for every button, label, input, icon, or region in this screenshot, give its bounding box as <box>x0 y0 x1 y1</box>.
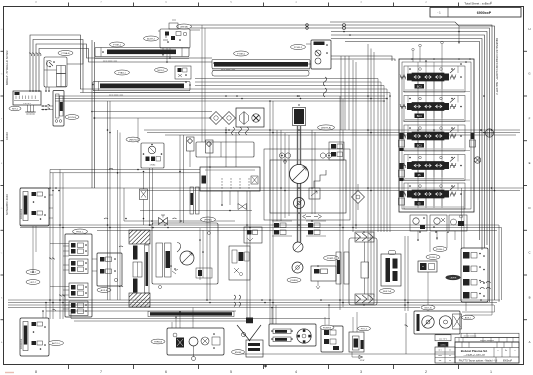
transmission box <box>152 223 218 284</box>
svg-text:ACBT-2: ACBT-2 <box>147 38 155 41</box>
svg-text:BC3: BC3 <box>417 115 422 118</box>
svg-text:PTGE-0: PTGE-0 <box>237 54 246 56</box>
left coil breaks <box>234 295 241 307</box>
label MSTR-A <box>318 125 335 130</box>
trans right details <box>196 228 212 280</box>
svg-text:7: 7 <box>100 370 102 374</box>
run y130 <box>144 130 520 135</box>
valve MOS-1 <box>175 66 191 79</box>
drive shaft <box>298 126 301 242</box>
label MULT-A <box>380 289 395 294</box>
bank port verticals <box>418 62 442 208</box>
label MSTA <box>177 24 192 29</box>
fan cooler box <box>236 108 264 127</box>
fan assembly outer <box>349 238 377 305</box>
registration mark <box>5 372 14 373</box>
trans pump <box>180 251 194 265</box>
bank relief R1 <box>470 133 481 163</box>
solenoid cluster R <box>306 221 326 236</box>
svg-text:AUX-L: AUX-L <box>465 317 472 320</box>
svg-text:xxx xxx xxxxxxxx: xxx xxx xxxxxxxx <box>480 340 494 342</box>
valve section 2 <box>400 96 465 122</box>
label AUX-L <box>462 315 475 320</box>
aux valve module <box>97 253 122 286</box>
svg-text:xxx xxx xxxxxxx: xxx xxx xxxxxxx <box>464 336 477 338</box>
label TILT-T <box>26 270 40 275</box>
svg-text:xx: xx <box>449 360 451 362</box>
module left PUSH <box>418 261 437 272</box>
engine mount cluster <box>237 325 263 357</box>
svg-text:xxx : 57 L: xxx : 57 L <box>439 338 447 340</box>
wire x93 <box>92 40 95 188</box>
axle bars <box>133 246 142 293</box>
svg-text:SCHEMATIC XXXX: SCHEMATIC XXXX <box>6 194 9 215</box>
valve bank outer <box>399 59 474 212</box>
bank section wires <box>403 92 470 181</box>
ACBT top box <box>169 20 178 29</box>
steering feed wires <box>32 226 55 318</box>
vert x207 <box>207 157 210 300</box>
svg-text:x: x <box>515 350 516 352</box>
wire x138 <box>137 118 139 143</box>
label LEVER <box>446 275 461 280</box>
wire <box>46 87 49 91</box>
pedal valve 3 <box>69 283 88 298</box>
ball valve 2 <box>124 188 235 225</box>
label SOLN-B <box>65 115 79 120</box>
zigzag pipe <box>314 170 326 188</box>
svg-text:LIFT-T: LIFT-T <box>30 282 37 284</box>
svg-text:6900xxP: 6900xxP <box>477 11 492 15</box>
thermo block <box>246 318 253 324</box>
svg-text:Total Sheet : xxBxxP: Total Sheet : xxBxxP <box>464 2 492 6</box>
drain arrow note <box>352 313 408 362</box>
label PUSH-1 <box>433 247 447 252</box>
svg-text:PUSH-2: PUSH-2 <box>429 257 438 259</box>
steering unit upper <box>20 188 49 226</box>
label LIFT-T <box>26 280 40 285</box>
label MOT-B <box>421 305 435 310</box>
wire breaks <box>49 258 65 297</box>
title revision strips <box>455 333 519 342</box>
label PRND <box>201 217 216 222</box>
valve section 1 <box>400 66 465 92</box>
left margin vertical note <box>6 50 9 85</box>
svg-text:SOLN-B: SOLN-B <box>68 117 77 119</box>
wire bundle top-left nest <box>30 35 212 93</box>
svg-text:H: H <box>528 27 530 31</box>
label THRS-B <box>151 339 165 344</box>
fan center <box>361 242 369 294</box>
cooler coils <box>232 127 249 135</box>
hose bar PTAS-1 <box>93 82 190 93</box>
run y300 <box>8 300 500 308</box>
hose coupler circles <box>306 24 346 30</box>
bank relief L3 <box>399 191 405 205</box>
inline valve box <box>140 173 148 225</box>
svg-text:x·x: x·x <box>449 350 451 352</box>
label PCHG-2 <box>291 45 306 50</box>
svg-text:(REVS): (REVS) <box>129 140 137 142</box>
svg-text:xxxx: xxxx <box>438 355 442 357</box>
pump 4 <box>292 262 303 273</box>
svg-text:4: 4 <box>295 370 297 374</box>
dark hose bottom <box>148 311 234 316</box>
vert x270 <box>270 101 273 324</box>
svg-text:PCHG-2: PCHG-2 <box>294 47 303 49</box>
relay module column <box>461 248 488 302</box>
svg-text:Bobcat Plasma SA: Bobcat Plasma SA <box>461 349 488 353</box>
svg-text:2: 2 <box>425 370 427 374</box>
vert x341 group <box>341 56 349 130</box>
solenoid cluster L <box>272 221 292 236</box>
vert x277-289 <box>277 130 289 221</box>
svg-text:(MSTA): (MSTA) <box>180 26 188 29</box>
svg-text:PTO-1: PTO-1 <box>361 329 368 331</box>
cluster feed wires <box>271 304 357 332</box>
svg-text:BC3: BC3 <box>417 145 422 148</box>
vert x353 <box>353 60 356 232</box>
svg-text:(CHRG): (CHRG) <box>290 280 298 282</box>
hose bar PTGE-1 <box>95 48 189 59</box>
run y311-316 <box>46 309 330 321</box>
svg-text:PUSH-1: PUSH-1 <box>436 249 445 251</box>
valve section 5 <box>400 183 465 209</box>
svg-text:~~Chd5~2~XXX~Of: ~~Chd5~2~XXX~Of <box>463 354 485 357</box>
bank bottom box2 <box>430 215 447 231</box>
vert x247 <box>247 191 250 322</box>
reservoir box <box>196 142 254 157</box>
run y354 <box>236 353 455 355</box>
label PTGE-0 <box>234 51 249 56</box>
vert x202 <box>202 25 205 142</box>
nest stub <box>458 26 460 44</box>
label KEY <box>9 106 21 111</box>
trans bits <box>159 265 179 288</box>
coil break right <box>323 77 327 97</box>
bank top stubs <box>412 41 444 62</box>
charge pump PCHG <box>306 40 331 69</box>
vert bundle bank-left <box>378 79 390 233</box>
svg-text:Dx: Dx <box>505 350 507 352</box>
motor valve REVS <box>141 143 164 168</box>
radiator chevron top <box>355 232 374 242</box>
vert x340 <box>340 96 343 310</box>
svg-text:F: F <box>529 116 531 120</box>
accumulator pills <box>336 252 349 284</box>
svg-text:B: B <box>529 295 531 299</box>
pump 2 <box>294 198 305 209</box>
run y96 <box>55 96 387 101</box>
svg-text:MOS-1: MOS-1 <box>158 70 166 72</box>
foot valve cluster <box>321 326 343 352</box>
svg-text:6900xxP - HYDRAULIC SCHEM: 6900xxP - HYDRAULIC SCHEM <box>6 50 9 85</box>
aux valve box <box>311 266 336 289</box>
svg-text:ENGN: ENGN <box>235 352 242 354</box>
run y78-92 <box>80 79 390 93</box>
svg-text:G: G <box>528 72 530 76</box>
label CHRG <box>287 278 301 283</box>
svg-text:MULT-A: MULT-A <box>383 290 391 293</box>
long verticals left <box>50 170 63 320</box>
gauge pair left <box>279 153 290 164</box>
small box xv <box>251 176 258 184</box>
circle cross right <box>485 129 493 137</box>
svg-text:XXXXXXXX: XXXXXXXX <box>21 338 23 349</box>
pump 3 <box>293 242 303 252</box>
ground symbols <box>25 105 35 114</box>
hydraulic tank <box>200 167 260 191</box>
shuttle arrows <box>303 215 322 219</box>
wire nest top A <box>190 22 495 305</box>
svg-text:6900xxP: 6900xxP <box>503 359 513 362</box>
wire PCHG to bank top <box>331 56 395 61</box>
hose note <box>221 69 235 71</box>
svg-text:xxXxx: xxXxx <box>440 345 445 347</box>
right coil breaks <box>480 281 491 289</box>
dark code box <box>438 342 449 347</box>
svg-text:xx·x: xx·x <box>438 350 441 352</box>
check diamond pump <box>352 184 365 210</box>
svg-text:REMOVE XX COVER FOR CLARITY -: REMOVE XX COVER FOR CLARITY - SEE SHT 2 <box>495 38 498 95</box>
label REVS <box>126 137 140 142</box>
transmission pills <box>156 243 171 277</box>
module M2 <box>229 246 250 280</box>
cooler feed wires <box>93 112 225 119</box>
label PUSH-B <box>320 325 334 330</box>
bank bottom box1 <box>410 215 427 231</box>
svg-text:XXXXXXXX: XXXXXXXX <box>21 208 23 219</box>
vert x405 <box>405 236 408 311</box>
throttle cluster <box>167 328 224 361</box>
breather 1 <box>187 137 195 167</box>
svg-text:AUX-B: AUX-B <box>101 289 108 292</box>
drawing number box <box>430 8 521 18</box>
vert x312 <box>312 130 315 214</box>
left margin vertical note 3 <box>6 194 9 215</box>
run y188 <box>20 188 523 191</box>
relay feeds <box>462 188 465 248</box>
tank pills <box>190 187 199 214</box>
title block main <box>455 342 519 363</box>
pto valve <box>349 332 364 352</box>
label PTAS-1 <box>115 70 130 75</box>
gauge pair right <box>320 153 331 158</box>
wire y169 <box>50 168 200 173</box>
svg-text:M: M <box>298 104 300 107</box>
wire x83 <box>67 44 83 64</box>
svg-text:MOT-B: MOT-B <box>425 308 432 310</box>
svg-text:8: 8 <box>35 370 37 374</box>
svg-text:PUSH-B: PUSH-B <box>323 328 332 330</box>
drive motor pair <box>414 311 460 334</box>
svg-text:PEDL-L: PEDL-L <box>76 232 84 234</box>
wire break arcs <box>29 53 41 56</box>
radiator chevron bottom <box>355 294 374 304</box>
wheel top <box>115 230 167 244</box>
svg-text:xTOBx: xTOBx <box>150 165 156 167</box>
svg-text:5: 5 <box>230 370 232 374</box>
svg-text:BC3: BC3 <box>417 86 422 89</box>
breather 2 <box>206 140 214 153</box>
svg-text:xx: xx <box>449 355 451 357</box>
joystick cluster <box>269 324 316 346</box>
label MOS-1 <box>155 68 168 73</box>
pump housing <box>264 149 350 220</box>
vert x226 <box>226 127 236 167</box>
label PEDL-L <box>73 229 88 234</box>
label ENGN <box>232 350 245 355</box>
axle housing <box>145 245 150 293</box>
svg-text:xx: xx <box>422 266 424 268</box>
svg-text:C: C <box>528 251 530 255</box>
label PTBA-B <box>58 51 73 56</box>
svg-text:A: A <box>529 340 531 344</box>
wire nest top B <box>331 32 487 251</box>
tank drain valve <box>140 191 252 211</box>
hose note <box>103 61 117 63</box>
svg-text:KEY-1: KEY-1 <box>12 109 19 111</box>
trans squiggle <box>177 243 181 253</box>
svg-text:D: D <box>528 206 530 210</box>
svg-text:(MSTR-A): (MSTR-A) <box>321 127 331 130</box>
svg-text:x x x x x: x x x x x <box>23 103 30 105</box>
svg-text:- 1: - 1 <box>437 11 441 15</box>
pedal valve 2 <box>69 259 88 274</box>
vert x180 <box>180 135 184 223</box>
valve PTBA-B <box>44 57 67 87</box>
hose note <box>109 95 123 97</box>
pedal valve 4 <box>69 301 88 316</box>
hose sleeve <box>212 71 309 77</box>
svg-text:1: 1 <box>490 370 492 374</box>
svg-text:12 W: 12 W <box>360 360 365 362</box>
label ACBT-2 <box>144 36 159 41</box>
right bundle bottom bend <box>462 305 495 315</box>
label PTO-1 <box>358 326 371 331</box>
bank relief L1 <box>399 133 405 151</box>
wire <box>150 168 153 225</box>
solenoid column SOLN-B <box>53 91 64 127</box>
label AUTO-L <box>49 341 64 346</box>
check diamond 1 <box>210 112 223 125</box>
valve ACBT <box>160 29 190 56</box>
svg-text:XXXXX: XXXXX <box>6 132 9 140</box>
svg-text:(PRND): (PRND) <box>204 220 212 222</box>
sheet count note <box>464 2 492 6</box>
throttle feed wires <box>172 308 193 329</box>
label PUMP-2 <box>324 256 339 261</box>
run y225 <box>20 225 502 302</box>
vert x368 <box>368 44 374 300</box>
pedal valve 1 <box>69 241 88 256</box>
svg-text:G: G <box>1 74 3 76</box>
engine M block <box>293 104 306 126</box>
check diamond 2 <box>223 112 236 125</box>
bank relief L2 <box>399 163 405 181</box>
ACBT drop wires <box>166 48 171 63</box>
battery key box <box>13 91 41 105</box>
steering unit lower <box>20 318 49 356</box>
svg-text:FAUTTO Taurus options - Madrid: FAUTTO Taurus options - Madrid - VII <box>459 359 498 362</box>
title left grid <box>435 347 455 363</box>
svg-text:PTGE-1: PTGE-1 <box>113 45 122 47</box>
label PTGE-1 <box>110 42 125 47</box>
junction dots scatter <box>29 31 495 306</box>
svg-text:x: x <box>498 350 499 352</box>
valve section 4 <box>400 155 465 181</box>
footnote star <box>264 364 268 369</box>
svg-text:LEVER: LEVER <box>450 277 457 279</box>
pilot solenoids <box>329 142 344 160</box>
aux motor box <box>453 314 462 329</box>
valve section 3 <box>400 125 465 151</box>
right margin vertical note <box>495 38 498 95</box>
filter block <box>381 251 401 287</box>
wheel bottom <box>115 293 167 307</box>
svg-text:E: E <box>529 161 531 165</box>
vert x107 <box>108 101 111 300</box>
svg-text:xx xx xxxx x xxx: xx xx xxxx x xxx <box>103 61 117 63</box>
svg-text:PTBA-B: PTBA-B <box>62 52 70 55</box>
oil volume box <box>435 335 451 341</box>
bank bottom box3 <box>449 215 467 231</box>
wire to solenoid <box>41 104 53 110</box>
label PUSH-2 <box>426 255 440 260</box>
svg-text:3: 3 <box>360 370 362 374</box>
svg-text:THRS-B: THRS-B <box>154 342 163 344</box>
arrow valve box <box>309 188 320 199</box>
svg-text:6: 6 <box>165 370 167 374</box>
label AUX-B <box>97 288 111 293</box>
vert x117 <box>118 130 121 300</box>
module M1 <box>244 227 262 243</box>
svg-text:PUMP-2: PUMP-2 <box>327 258 336 260</box>
wire <box>158 30 200 31</box>
hose bar PTGE-0 <box>212 60 310 71</box>
pedal column box <box>65 234 92 317</box>
svg-text:PTAS-1: PTAS-1 <box>118 72 126 75</box>
main pump <box>290 165 309 184</box>
bank bottom stubs <box>417 231 455 241</box>
left margin vertical note 2 <box>6 132 9 140</box>
pedal feed stubs <box>49 195 97 309</box>
vert into motors <box>428 232 466 311</box>
svg-text:AUTO-L: AUTO-L <box>52 342 61 345</box>
break arcs mid <box>104 218 123 287</box>
svg-text:xxx: xxx <box>439 360 442 362</box>
